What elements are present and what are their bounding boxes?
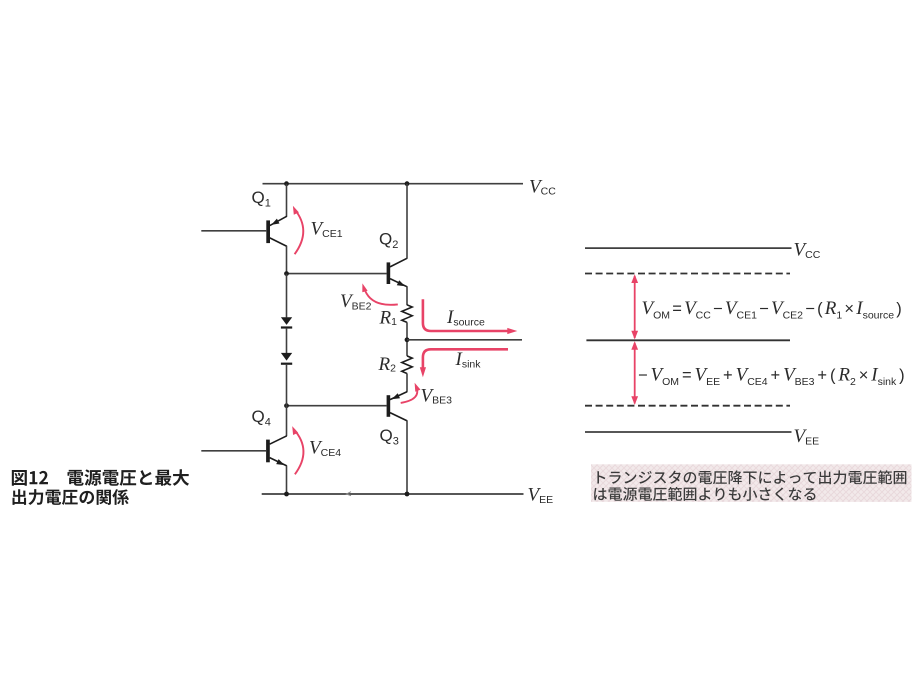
wire node row Q1.collector to Q2.base	[287, 273, 387, 275]
diode D2	[281, 353, 292, 365]
wire Q4 base lead	[201, 450, 266, 452]
svg-text:Isink: Isink	[455, 349, 482, 370]
caption 出力電圧の関係	[13, 489, 129, 505]
svg-text:VCC: VCC	[794, 240, 821, 262]
wire Q4 emitter down	[286, 466, 288, 494]
node: VCC rail / Q1 emitter junction	[284, 181, 289, 186]
node junction diode/Q4/Q3 base	[284, 403, 289, 408]
svg-text:Q1: Q1	[252, 188, 271, 210]
wire Q2 emitter to R1	[406, 287, 408, 306]
svg-text:Q3: Q3	[380, 426, 399, 448]
label Isource	[446, 307, 485, 328]
wire diode chain bottom	[286, 365, 288, 406]
svg-text:R1: R1	[379, 308, 398, 329]
line mid output level	[586, 339, 790, 341]
note box (hatched)	[591, 464, 912, 502]
resistor R2	[402, 356, 412, 374]
label Q3	[380, 426, 399, 448]
svg-text:VBE3: VBE3	[421, 386, 453, 407]
dashed line upper output limit	[585, 273, 790, 275]
wire Q4 collector up to junction	[286, 406, 288, 436]
svg-text:VCC: VCC	[529, 177, 556, 198]
dashed line lower output limit	[585, 405, 790, 407]
svg-text:VEE: VEE	[794, 426, 820, 448]
wire diode chain top	[286, 274, 288, 318]
label Q2	[379, 230, 398, 252]
equation VOM = VCC - VCE1 - VCE2 - (R1 x Isource)	[642, 298, 902, 322]
label Isink	[455, 349, 482, 370]
node VEE rail / Q4 emitter	[284, 492, 289, 497]
wire Q3 collector down to VEE rail	[406, 421, 408, 494]
arc VBE2 (red arrow)	[362, 283, 398, 304]
note text line2 は電源電圧範囲よりも小さくなる	[594, 487, 815, 501]
transistor Q4 (NPN)	[266, 436, 287, 466]
line VEE level	[585, 431, 792, 433]
arrow VOM span (red double arrow upper)	[631, 274, 638, 339]
label VEE (circuit bottom rail)	[528, 485, 554, 506]
wire Q1 emitter to VCC rail	[286, 184, 288, 217]
svg-text:VEE: VEE	[528, 485, 554, 506]
svg-text:R2: R2	[378, 354, 397, 375]
wire between diodes	[286, 329, 288, 353]
arrow Isink (red)	[420, 349, 508, 377]
tick mark on VEE rail	[347, 492, 352, 496]
svg-text:VCE4: VCE4	[309, 438, 341, 459]
svg-text:Isource: Isource	[446, 307, 485, 328]
node: VCC rail / Q2 collector junction	[405, 181, 410, 186]
wire R1 to output node	[406, 322, 408, 356]
transistor Q3 (PNP, emitter up)	[387, 392, 408, 421]
wire VCC top rail	[263, 183, 524, 185]
arc VBE3 (red arrow)	[401, 383, 421, 403]
wire R2 to Q3 emitter	[406, 373, 408, 391]
wire Q1 base lead	[201, 230, 266, 232]
svg-text:Q2: Q2	[379, 230, 398, 252]
equation -VOM = VEE + VCE4 + VBE3 + (R2 x Isink)	[638, 364, 905, 388]
node junction at Q1 collector	[284, 271, 289, 276]
label VCE1	[311, 219, 343, 240]
label Q4	[252, 407, 271, 429]
node output junction	[405, 337, 410, 342]
arc VCE4 (red arrow)	[292, 426, 303, 474]
arrow Isource (red)	[423, 299, 517, 334]
wire Q1 collector down	[286, 246, 288, 274]
label VCC (circuit top rail)	[529, 177, 556, 198]
label VCE4	[309, 438, 341, 459]
label VCC (diagram)	[794, 240, 821, 262]
svg-text:VCE1: VCE1	[311, 219, 343, 240]
label VEE (diagram)	[794, 426, 820, 448]
node VEE rail / Q3 collector	[405, 492, 410, 497]
wire output line	[407, 339, 522, 341]
svg-text:−VOM=VEE+VCE4+VBE3+(R2×Isink): −VOM=VEE+VCE4+VBE3+(R2×Isink)	[638, 364, 905, 388]
label R1	[379, 308, 398, 329]
diode D1	[281, 317, 292, 328]
note text line1 トランジスタの電圧降下によって出力電圧範囲	[597, 470, 906, 484]
arrow -VOM span (red double arrow lower)	[631, 341, 638, 405]
svg-text:Q4: Q4	[252, 407, 271, 429]
label VBE2	[340, 291, 372, 312]
label R2	[378, 354, 397, 375]
transistor Q1 (PNP, emitter up)	[266, 216, 287, 246]
wire base row: diode bottom to Q3 base	[287, 405, 387, 407]
transistor Q2 (NPN)	[387, 258, 408, 287]
label VBE3	[421, 386, 453, 407]
caption 図12 電源電圧と最大	[12, 469, 189, 486]
label Q1	[252, 188, 271, 210]
wire VEE bottom rail	[262, 493, 524, 495]
arc VCE1 (red arrow)	[293, 206, 303, 254]
line VCC level	[585, 247, 792, 249]
resistor R1	[402, 305, 412, 323]
wire Q2 collector to VCC rail	[406, 184, 408, 259]
svg-text:VOM=VCC−VCE1−VCE2−(R1×Isource): VOM=VCC−VCE1−VCE2−(R1×Isource)	[642, 298, 902, 322]
